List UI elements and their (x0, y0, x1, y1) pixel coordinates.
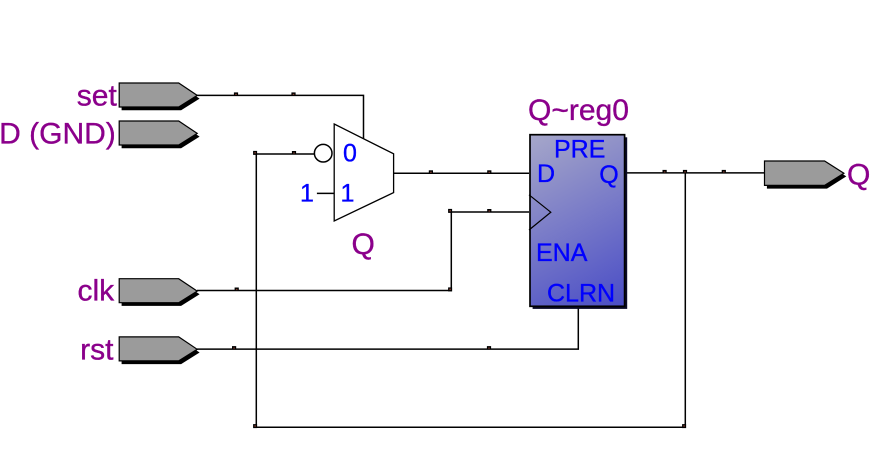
svg-text:PRE: PRE (554, 135, 605, 163)
svg-text:D: D (537, 160, 555, 188)
svg-text:1: 1 (341, 180, 355, 208)
svg-text:Q: Q (847, 159, 870, 192)
svg-text:1: 1 (300, 180, 314, 208)
svg-text:0: 0 (343, 140, 357, 168)
svg-text:Q: Q (352, 228, 375, 261)
svg-text:Q: Q (599, 161, 618, 189)
svg-text:Q~reg0: Q~reg0 (528, 94, 629, 127)
svg-text:CLRN: CLRN (547, 280, 615, 308)
svg-text:rst: rst (80, 334, 114, 367)
svg-text:D (GND): D (GND) (0, 118, 116, 151)
svg-text:ENA: ENA (536, 239, 588, 267)
svg-text:set: set (77, 80, 118, 113)
svg-text:clk: clk (78, 275, 116, 308)
